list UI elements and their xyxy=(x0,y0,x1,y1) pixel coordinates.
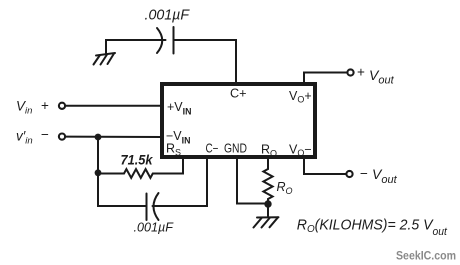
wire Vin- to pin -VIN xyxy=(66,136,163,138)
resistor R2 RO xyxy=(263,169,272,199)
svg-text:VO−: VO− xyxy=(289,143,312,159)
wire pin GND down to node C xyxy=(237,158,268,204)
wire node B down to capacitor C2 xyxy=(98,173,146,206)
svg-text:RO: RO xyxy=(261,143,277,159)
svg-text:Vout: Vout xyxy=(372,166,398,186)
wire node B to resistor R1 xyxy=(98,173,124,175)
junction node A xyxy=(95,134,102,141)
svg-text:−: − xyxy=(41,127,49,142)
wire capacitor C2 to pin C- xyxy=(153,158,208,206)
junction node C xyxy=(264,200,271,207)
svg-text:Vout: Vout xyxy=(369,67,395,87)
svg-text:v′in: v′in xyxy=(16,129,33,147)
wire top ground to capacitor C1 xyxy=(106,40,166,53)
svg-text:+VIN: +VIN xyxy=(167,100,191,117)
capacitor C1 xyxy=(157,27,174,54)
svg-text:RO(KILOHMS)= 2.5 Vout: RO(KILOHMS)= 2.5 Vout xyxy=(297,217,448,238)
terminal Vin- xyxy=(59,134,65,140)
junction node B xyxy=(95,169,102,176)
svg-text:+: + xyxy=(41,98,49,113)
wire pin VO+ to +Vout terminal xyxy=(304,73,347,85)
ground G2 xyxy=(254,204,279,228)
capacitor C2 xyxy=(147,193,159,220)
terminal -Vout xyxy=(346,171,352,177)
ground G1 xyxy=(94,53,116,65)
wire resistor R1 to pin RS xyxy=(153,158,183,174)
svg-text:RO: RO xyxy=(277,180,293,196)
IC U1 box xyxy=(162,84,315,157)
label formula RO(KILOHMS)=2.5Vout xyxy=(297,217,448,238)
svg-text:+: + xyxy=(357,65,365,80)
svg-text:SeekIC.com: SeekIC.com xyxy=(396,251,456,263)
wire pin RO to resistor R2 xyxy=(267,158,269,169)
wire Vin+ to pin +VIN xyxy=(66,105,163,107)
wire resistor R2 to node C xyxy=(267,199,269,204)
svg-text:GND: GND xyxy=(224,142,247,156)
svg-text:.001µF: .001µF xyxy=(134,220,175,235)
svg-text:71.5k: 71.5k xyxy=(121,152,154,168)
svg-text:C+: C+ xyxy=(230,87,247,101)
svg-text:.001µF: .001µF xyxy=(145,7,190,24)
svg-text:C−: C− xyxy=(206,142,219,156)
resistor R1 71.5k xyxy=(124,169,153,178)
svg-text:Vin: Vin xyxy=(16,99,32,117)
wire capacitor C1 to pin C+ xyxy=(175,40,237,83)
svg-text:VO+: VO+ xyxy=(289,89,312,105)
svg-text:RS: RS xyxy=(166,142,181,158)
terminal +Vout xyxy=(347,69,353,75)
wire node A down to node B xyxy=(97,137,99,174)
terminal Vin+ xyxy=(59,103,65,109)
wire pin VO- to -Vout terminal xyxy=(304,158,346,174)
svg-text:−: − xyxy=(360,166,368,181)
